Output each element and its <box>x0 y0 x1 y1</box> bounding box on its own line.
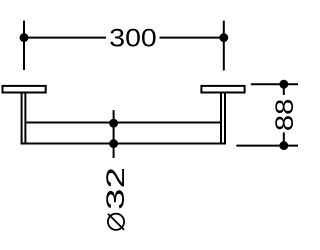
svg-text:32: 32 <box>103 167 130 210</box>
svg-text:88: 88 <box>272 99 299 132</box>
svg-text:300: 300 <box>109 26 157 53</box>
